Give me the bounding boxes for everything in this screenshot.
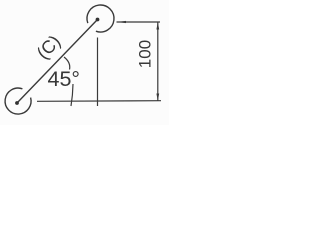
wire: vertical line from node B down to reference line (97, 38, 99, 107)
svg-text:45°: 45° (48, 67, 81, 91)
wire: top extension line of dimension (117, 21, 161, 23)
node A: bottom-left point circle (5, 88, 31, 114)
arrowhead down at bottom of dimension line (156, 94, 159, 102)
wire: vertical dimension line (157, 22, 159, 101)
node B: top-right point circle (87, 5, 114, 32)
arrowhead up at top of dimension line (156, 22, 159, 30)
wire: diagonal line from point A to point B (17, 20, 98, 104)
svg-text:100: 100 (136, 40, 155, 68)
node B center dot (96, 18, 100, 22)
angle arc upper segment (64, 57, 70, 70)
arrowhead pointing left on extension line (117, 21, 126, 23)
wire: bottom horizontal reference line (37, 100, 161, 103)
angle arc lower segment (71, 84, 73, 106)
node A center dot (15, 101, 19, 105)
